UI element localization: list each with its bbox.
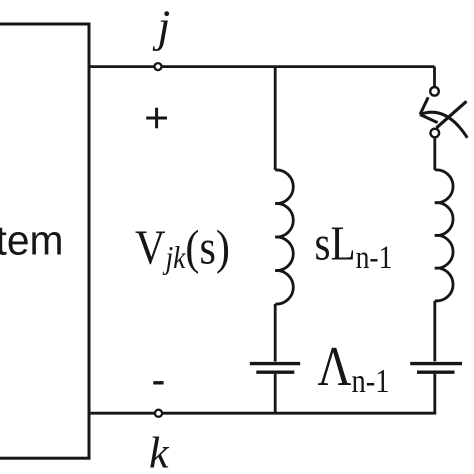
inductor sL_{n-1} (middle branch) [275, 170, 293, 304]
switch arrow arc [420, 112, 467, 138]
node j terminal circle [155, 63, 162, 70]
switch arrowhead barb upper [420, 97, 428, 114]
wire: right branch between switch and inductor [433, 138, 436, 170]
capacitor (right branch) top plate [410, 362, 462, 365]
minus sign (polarity -) [153, 381, 163, 384]
svg-text:tem: tem [0, 217, 64, 264]
capacitor Lambda_{n-1} top plate [250, 362, 300, 365]
wire: middle branch between inductor and capacitor [274, 304, 277, 362]
switch arrowhead barb lower [420, 115, 438, 123]
wire: right branch between inductor and capacitor [433, 301, 436, 362]
wire: top rail j [89, 65, 435, 68]
wire: right branch bottom [433, 374, 436, 413]
switch blade [437, 101, 467, 128]
node k terminal circle [155, 410, 162, 417]
inductor (right branch) [435, 170, 453, 301]
switch top terminal circle [430, 87, 439, 96]
system box [0, 24, 89, 458]
capacitor Lambda_{n-1} bottom plate [256, 371, 294, 374]
switch bottom terminal circle [431, 129, 440, 138]
svg-text:k: k [149, 429, 170, 474]
wire: middle branch top [274, 67, 277, 170]
wire: right branch top corner down to switch [433, 67, 436, 87]
wire: middle branch bottom [274, 374, 277, 413]
wire: bottom rail k [89, 412, 436, 415]
plus sign (polarity +) [146, 108, 167, 129]
capacitor (right branch) bottom plate [417, 371, 455, 374]
